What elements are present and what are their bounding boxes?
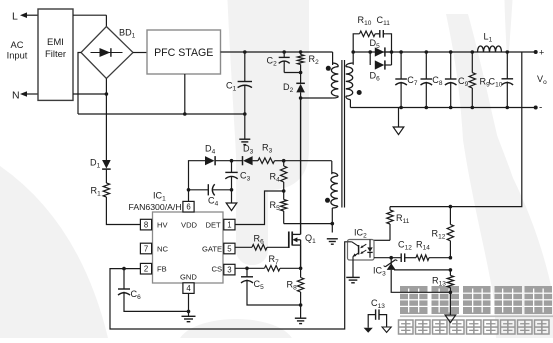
snubber loop wire [353, 34, 391, 52]
PFC stage block [147, 30, 221, 74]
wire [300, 98, 302, 234]
aux polarity dot [325, 198, 330, 203]
inductor L1 [478, 46, 502, 52]
resistor R8 [297, 268, 303, 318]
label R9 [480, 77, 491, 89]
label IC3 [373, 266, 386, 278]
pin 1 DET [206, 219, 236, 230]
bridge rectifier BD1 [81, 27, 133, 79]
svg-text:6: 6 [186, 203, 190, 212]
svg-text:8: 8 [144, 221, 148, 230]
label R11 [396, 213, 410, 225]
svg-text:N: N [12, 90, 20, 102]
ground [239, 139, 250, 144]
wire [187, 161, 205, 202]
wire [235, 267, 265, 271]
label L1 [484, 32, 493, 44]
label C9 [458, 76, 469, 88]
label R3 [262, 143, 273, 155]
wire [299, 96, 333, 100]
diode D5 [375, 47, 392, 56]
label C12 [398, 239, 412, 251]
label C6 [131, 289, 142, 301]
capacitor C6 [118, 269, 189, 312]
wire [106, 197, 140, 225]
svg-text:-: - [539, 103, 542, 114]
transformer secondary winding [346, 52, 353, 108]
op-amp U1 body [153, 212, 224, 283]
label C5 [254, 279, 265, 291]
diode D4 [205, 156, 215, 165]
node L [12, 11, 38, 23]
wire [73, 15, 106, 26]
diode D6 branch [370, 52, 391, 65]
pin 6 VDD [181, 201, 198, 229]
capacitor C10 [502, 50, 514, 109]
transformer auxiliary winding [331, 161, 338, 233]
node Vo - [534, 103, 543, 114]
svg-text:GATE: GATE [202, 244, 222, 253]
capacitor C7 [395, 50, 407, 109]
ground [445, 315, 456, 323]
svg-text:AC: AC [11, 40, 24, 50]
capacitor C5 [241, 268, 301, 305]
ground [226, 190, 237, 211]
label C8 [432, 75, 443, 87]
svg-text:NC: NC [157, 244, 168, 253]
wire [350, 107, 535, 109]
capacitor C1 [238, 50, 252, 138]
label C10 [489, 77, 503, 89]
svg-text:EMI: EMI [47, 37, 64, 48]
wire [390, 52, 522, 207]
label D1 [90, 158, 101, 170]
wire [284, 222, 334, 226]
node Vo + [534, 48, 545, 58]
pin 8 HV [140, 219, 168, 230]
svg-text:FB: FB [157, 265, 167, 274]
EMI filter block [38, 9, 73, 100]
capacitor C13 [368, 309, 386, 327]
wire [374, 239, 390, 241]
resistor R6 [235, 245, 289, 251]
label IC1 [153, 191, 166, 203]
ground [327, 239, 338, 244]
capacitor C9 [445, 50, 457, 109]
resistor R11 [387, 207, 393, 241]
svg-text:CS: CS [212, 265, 223, 274]
svg-text:GND: GND [180, 272, 197, 281]
primary polarity dot [326, 66, 331, 71]
label D3 [243, 144, 254, 156]
label IC2 [354, 228, 367, 240]
svg-text:Input: Input [7, 51, 28, 61]
svg-text:DET: DET [206, 221, 222, 230]
wire [184, 74, 186, 114]
resistor R1 [103, 183, 109, 197]
ground [364, 328, 373, 333]
wire [391, 270, 450, 292]
svg-text:Filter: Filter [45, 49, 66, 60]
resistor R5 [281, 191, 287, 224]
resistor R9 [469, 50, 475, 109]
transistor Q1 [289, 232, 301, 269]
diode D6 [375, 60, 392, 69]
label C4 [208, 196, 219, 208]
diode D2 [296, 73, 305, 99]
wire [105, 79, 109, 161]
capacitor C3 [225, 161, 237, 192]
svg-text:7: 7 [144, 244, 148, 253]
resistor R2 [297, 50, 303, 72]
transformer primary winding [331, 63, 338, 98]
svg-text:2: 2 [144, 265, 148, 274]
label C3 [240, 171, 251, 183]
capacitor C8 [421, 50, 433, 109]
diode D3 [243, 156, 253, 165]
watermark logo text [399, 286, 553, 334]
wire [390, 50, 536, 54]
wire [394, 268, 452, 272]
svg-text:VDD: VDD [181, 221, 198, 230]
label R14 [416, 239, 430, 251]
resistor R12 [447, 205, 453, 258]
wire [78, 112, 247, 116]
shunt regulator IC3 [384, 258, 398, 270]
resistor R10 [360, 31, 376, 37]
secondary polarity dot [357, 90, 362, 95]
svg-text:HV: HV [157, 221, 168, 230]
resistor R14 [405, 255, 453, 261]
pin 4 GND [180, 272, 197, 293]
resistor R7 [265, 266, 303, 272]
svg-text:L: L [12, 11, 18, 23]
label R1 [91, 186, 102, 198]
wire [187, 293, 191, 316]
diode D1 [102, 160, 111, 183]
ground [346, 277, 360, 282]
capacitor C12 [401, 253, 405, 262]
svg-text:1: 1 [227, 221, 231, 230]
label R10 [358, 15, 372, 27]
label D5 [370, 38, 381, 50]
resistor R3 [253, 158, 284, 164]
opto-coupler IC2 [348, 240, 375, 261]
wire [78, 53, 81, 115]
transformer core [342, 60, 345, 208]
wire [351, 50, 391, 54]
wire [235, 191, 284, 225]
label FAN6300/A/H [129, 202, 182, 212]
capacitor C11 [375, 30, 385, 38]
wire [110, 242, 348, 329]
wire [284, 71, 302, 75]
label C13 [371, 298, 385, 310]
node N [12, 90, 38, 102]
pin 7 NC [140, 243, 168, 254]
resistor R13 [447, 270, 453, 315]
wire [216, 159, 242, 163]
capacitor C4 [189, 184, 232, 195]
label R6 [254, 234, 265, 246]
capacitor C2 [279, 50, 290, 72]
wire [282, 159, 332, 163]
label R4 [270, 172, 281, 184]
ground [382, 327, 391, 332]
label D6 [370, 71, 381, 83]
pin 2 FB [140, 263, 166, 274]
svg-text:4: 4 [186, 284, 191, 293]
label C11 [377, 15, 391, 27]
label R7 [269, 254, 280, 266]
wire [133, 52, 147, 54]
label C7 [407, 75, 418, 87]
wire [221, 52, 333, 65]
label D4 [205, 144, 216, 156]
wire [73, 93, 106, 95]
label C1 [226, 81, 237, 93]
svg-text:5: 5 [227, 244, 232, 253]
label Vo [537, 74, 547, 86]
label R5 [270, 200, 281, 212]
label R8 [287, 280, 298, 292]
svg-text:+: + [539, 48, 544, 58]
wire [374, 256, 401, 260]
wire [352, 260, 354, 277]
label R2 [309, 54, 320, 66]
resistor R4 [281, 161, 287, 193]
svg-text:3: 3 [227, 266, 231, 275]
label R12 [432, 229, 446, 241]
svg-text:FAN6300/A/H: FAN6300/A/H [129, 202, 182, 212]
label R13 [432, 276, 446, 288]
svg-text:PFC STAGE: PFC STAGE [154, 47, 213, 59]
AC input label [7, 40, 28, 61]
pin 3 CS [212, 264, 236, 275]
label Q1 [305, 233, 316, 245]
ground [393, 108, 404, 135]
label C2 [267, 56, 278, 68]
ground [182, 316, 196, 321]
ground [295, 318, 307, 323]
label BD1 [119, 28, 136, 40]
label D2 [283, 82, 294, 94]
pin 5 GATE [202, 243, 235, 254]
